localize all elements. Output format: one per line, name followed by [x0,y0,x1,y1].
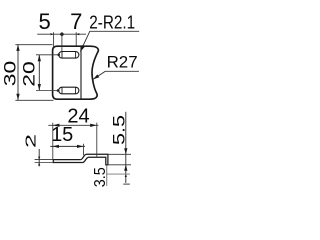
svg-text:5: 5 [38,9,50,34]
svg-text:7: 7 [70,9,82,34]
svg-text:2: 2 [23,134,40,148]
svg-text:5.5: 5.5 [111,115,129,145]
svg-text:2-R2.1: 2-R2.1 [89,11,135,33]
svg-text:3.5: 3.5 [92,167,109,187]
svg-text:15: 15 [51,124,73,146]
svg-text:30: 30 [1,61,20,87]
svg-text:R27: R27 [107,53,138,72]
svg-text:20: 20 [20,61,39,87]
